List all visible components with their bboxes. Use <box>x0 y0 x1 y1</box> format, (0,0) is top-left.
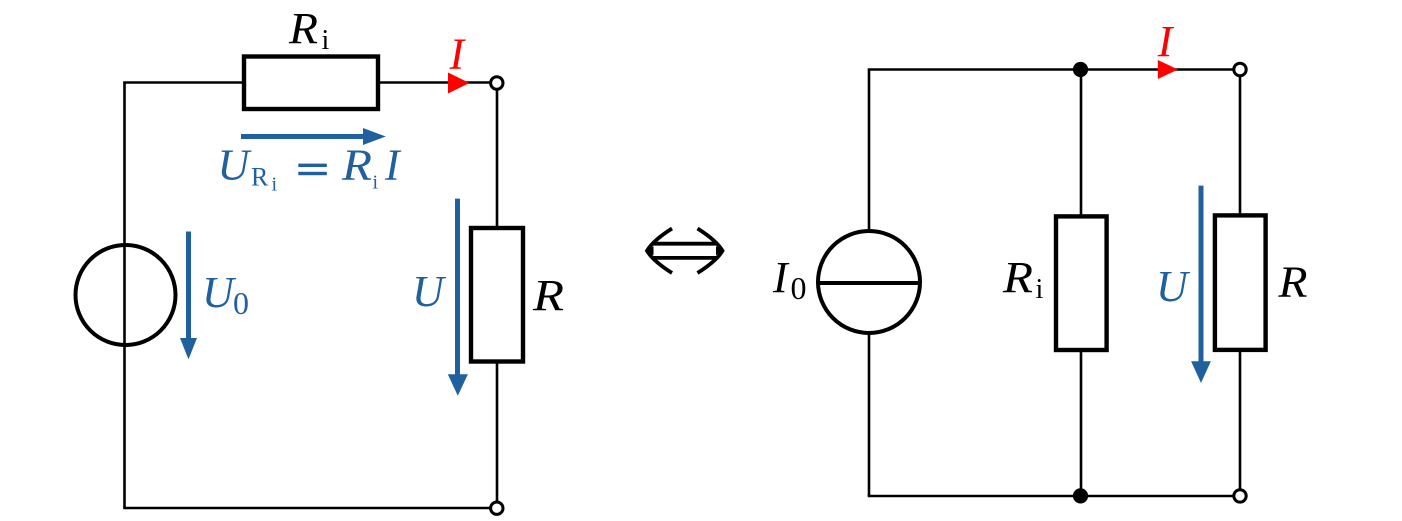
svg-text:i: i <box>373 171 379 193</box>
wire R branch bottom (right circuit) <box>1239 348 1242 490</box>
wire Ri branch top (right circuit) <box>1080 70 1083 219</box>
label URi = Ri I (blue formula) <box>218 141 403 196</box>
terminal node top (open circle, left circuit) <box>491 77 503 89</box>
svg-text:R: R <box>288 4 318 53</box>
current arrow I (red, right circuit) <box>1158 60 1178 79</box>
wire top right (from Ri to terminal) <box>376 81 491 84</box>
svg-text:I: I <box>1157 17 1175 66</box>
wire top rail (right circuit) <box>868 68 1234 71</box>
resistor Ri (parallel, right circuit) <box>1056 216 1107 350</box>
svg-text:0: 0 <box>233 285 249 321</box>
wire left vertical bottom (source to bottom rail) <box>868 331 871 496</box>
label Ri (right circuit) <box>1002 253 1044 305</box>
svg-text:R: R <box>532 271 564 320</box>
svg-text:I: I <box>384 141 402 190</box>
label Ri (above resistor) <box>288 4 330 56</box>
wire Ri branch bottom (right circuit) <box>1080 348 1083 496</box>
voltage arrow U0 (blue) <box>180 232 197 360</box>
terminal node bottom (open circle, right circuit) <box>1234 490 1246 502</box>
wire bottom rail (right circuit) <box>868 495 1234 498</box>
wire right vertical bottom (load R to terminal) <box>496 359 499 502</box>
svg-text:R: R <box>1002 253 1033 302</box>
svg-text:U: U <box>1156 262 1191 311</box>
svg-text:i: i <box>272 174 278 196</box>
resistor R (load, left circuit) <box>471 228 523 362</box>
terminal node top (open circle, right circuit) <box>1234 63 1246 75</box>
svg-text:R: R <box>1277 258 1307 307</box>
svg-text:0: 0 <box>791 270 807 306</box>
svg-text:I: I <box>449 30 467 79</box>
voltage source U0 (circle) <box>76 245 176 345</box>
svg-text:R: R <box>341 141 372 190</box>
junction node bottom (filled dot) <box>1073 488 1088 503</box>
label I0 <box>772 253 807 306</box>
svg-text:i: i <box>1036 274 1044 305</box>
svg-text:U: U <box>202 268 237 317</box>
voltage arrow URi (blue, horizontal) <box>241 128 386 145</box>
wire bottom (left circuit) <box>123 507 490 510</box>
wire left vertical (current source branch, right circuit) <box>868 70 871 234</box>
label U0 (blue) <box>202 268 249 321</box>
current arrow I (red, left circuit) <box>448 73 470 94</box>
svg-text:U: U <box>412 267 447 316</box>
svg-text:i: i <box>322 25 330 56</box>
equivalence symbol (Leftrightarrow) <box>647 229 723 274</box>
voltage arrow U (blue, right circuit) <box>1191 186 1211 383</box>
terminal node bottom (open circle, left circuit) <box>491 502 503 514</box>
wire through voltage source <box>123 245 126 345</box>
resistor R (load, right circuit) <box>1215 215 1266 350</box>
wire R branch top (right circuit) <box>1239 76 1242 218</box>
wire right vertical top (terminal to load R) <box>496 90 499 231</box>
resistor Ri (series, left circuit) <box>244 57 378 110</box>
wire top left (from source to resistor Ri) <box>123 81 246 84</box>
wire left vertical (source branch, left circuit) <box>123 83 126 509</box>
current source I0 (circle with bar) <box>818 231 920 333</box>
bar of current source <box>818 281 920 285</box>
svg-text:I: I <box>772 253 790 302</box>
svg-text:U: U <box>218 141 253 190</box>
svg-text:R: R <box>251 163 269 192</box>
voltage arrow U (blue, left circuit load) <box>448 199 468 396</box>
junction node top (filled dot) <box>1073 62 1088 77</box>
